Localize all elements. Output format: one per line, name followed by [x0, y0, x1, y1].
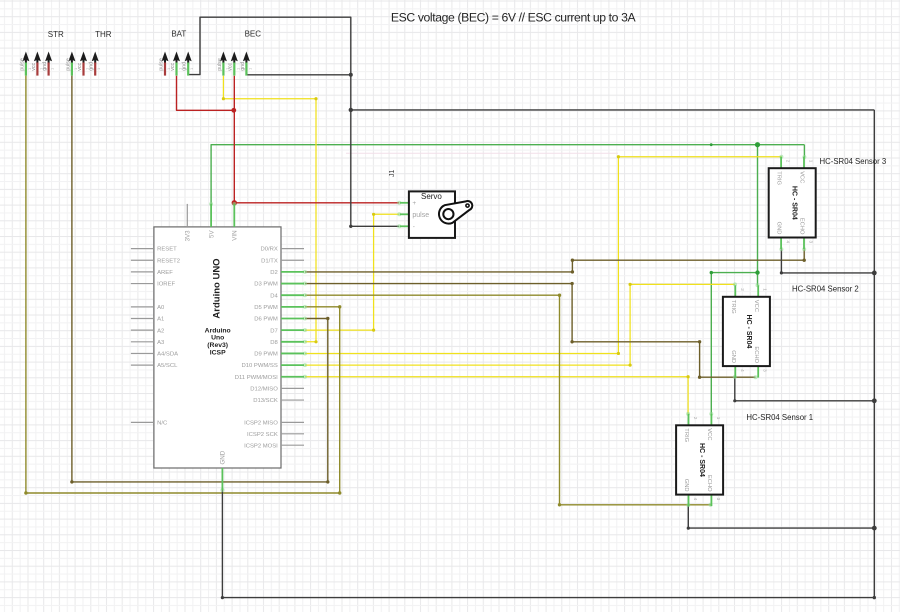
svg-text:D1/TX: D1/TX: [261, 258, 278, 264]
svg-text:D11 PWM/MOSI: D11 PWM/MOSI: [235, 375, 278, 381]
svg-text:IOREF: IOREF: [157, 282, 175, 288]
svg-text:D13/SCK: D13/SCK: [253, 398, 278, 404]
svg-text:BEC: BEC: [245, 30, 262, 39]
svg-text:GND: GND: [730, 350, 736, 363]
svg-text:-: -: [413, 224, 415, 231]
svg-text:3: 3: [716, 498, 721, 501]
svg-text:ECHO: ECHO: [706, 475, 712, 492]
svg-text:D0/RX: D0/RX: [260, 247, 277, 253]
svg-text:TRIG: TRIG: [776, 171, 782, 185]
svg-text:vcc: vcc: [31, 63, 37, 71]
svg-text:4: 4: [693, 498, 698, 501]
svg-text:HC-SR04 Sensor 3: HC-SR04 Sensor 3: [820, 157, 887, 166]
svg-text:D12/MISO: D12/MISO: [250, 387, 278, 393]
svg-text:2: 2: [740, 288, 745, 291]
svg-text:THR: THR: [95, 30, 112, 39]
svg-text:ESC voltage (BEC) = 6V // ESC: ESC voltage (BEC) = 6V // ESC current up…: [391, 11, 637, 25]
svg-text:D5 PWM: D5 PWM: [254, 305, 278, 311]
svg-text:+: +: [412, 200, 416, 207]
svg-text:D8: D8: [270, 340, 278, 346]
svg-text:ICSP2 SCK: ICSP2 SCK: [247, 432, 278, 438]
svg-text:A2: A2: [157, 328, 164, 334]
svg-text:pulse: pulse: [217, 58, 223, 71]
svg-text:VCC: VCC: [799, 171, 805, 183]
svg-text:Servo: Servo: [421, 192, 442, 201]
svg-text:pulse: pulse: [65, 58, 71, 71]
svg-text:D6 PWM: D6 PWM: [254, 317, 278, 323]
svg-text:BAT: BAT: [171, 30, 186, 39]
svg-text:D10 PWM/SS: D10 PWM/SS: [241, 363, 277, 369]
svg-text:RESET: RESET: [157, 247, 177, 253]
svg-text:Uno: Uno: [211, 335, 224, 342]
svg-text:VCC: VCC: [753, 300, 759, 312]
svg-text:gnd: gnd: [89, 62, 95, 71]
svg-text:HC - SR04: HC - SR04: [745, 315, 752, 349]
svg-text:pulse: pulse: [19, 58, 25, 71]
svg-text:4: 4: [786, 241, 791, 244]
svg-text:AREF: AREF: [157, 270, 173, 276]
svg-text:2: 2: [786, 160, 791, 163]
svg-text:HC - SR04: HC - SR04: [698, 443, 705, 477]
svg-text:ECHO: ECHO: [799, 218, 805, 235]
svg-text:N/C: N/C: [157, 421, 168, 427]
svg-text:5V: 5V: [208, 230, 215, 238]
svg-text:vcc: vcc: [77, 63, 83, 71]
svg-text:J1: J1: [389, 170, 396, 178]
svg-text:gnd: gnd: [240, 62, 246, 71]
svg-text:3: 3: [809, 241, 814, 244]
svg-text:D3 PWM: D3 PWM: [254, 282, 278, 288]
svg-text:pulse: pulse: [158, 58, 164, 71]
svg-text:GND: GND: [776, 222, 782, 235]
svg-text:vcc: vcc: [228, 63, 234, 71]
svg-text:gnd: gnd: [42, 62, 48, 71]
svg-text:TRIG: TRIG: [730, 300, 736, 314]
svg-text:3V3: 3V3: [185, 230, 192, 242]
svg-text:Arduino: Arduino: [205, 327, 231, 334]
svg-text:(Rev3): (Rev3): [207, 342, 228, 349]
svg-text:A4/SDA: A4/SDA: [157, 352, 178, 358]
svg-text:1: 1: [763, 288, 768, 291]
svg-text:pulse: pulse: [412, 212, 429, 219]
svg-text:HC-SR04 Sensor 2: HC-SR04 Sensor 2: [792, 285, 859, 294]
svg-text:D9 PWM: D9 PWM: [254, 352, 278, 358]
svg-text:1: 1: [809, 160, 814, 163]
svg-text:A0: A0: [157, 305, 165, 311]
svg-text:vcc: vcc: [170, 63, 176, 71]
svg-text:VCC: VCC: [706, 428, 712, 440]
svg-text:ECHO: ECHO: [753, 346, 759, 363]
svg-text:ICSP: ICSP: [210, 350, 226, 357]
svg-text:D7: D7: [270, 328, 278, 334]
svg-text:A1: A1: [157, 317, 164, 323]
svg-text:2: 2: [693, 417, 698, 420]
svg-text:VIN: VIN: [232, 230, 239, 240]
svg-text:GND: GND: [683, 479, 689, 492]
svg-text:GND: GND: [220, 450, 227, 464]
svg-text:HC - SR04: HC - SR04: [791, 186, 798, 220]
svg-text:RESET2: RESET2: [157, 258, 180, 264]
svg-text:A3: A3: [157, 340, 165, 346]
svg-text:ICSP2 MISO: ICSP2 MISO: [244, 421, 278, 427]
svg-text:HC-SR04 Sensor 1: HC-SR04 Sensor 1: [746, 413, 813, 422]
svg-text:TRIG: TRIG: [683, 428, 689, 442]
svg-text:D2: D2: [270, 270, 278, 276]
svg-text:3: 3: [763, 369, 768, 372]
svg-text:Arduino UNO: Arduino UNO: [212, 258, 223, 318]
svg-text:ICSP2 MOSI: ICSP2 MOSI: [244, 443, 278, 449]
svg-text:gnd: gnd: [182, 62, 188, 71]
svg-text:D4: D4: [270, 293, 278, 299]
svg-text:4: 4: [740, 369, 745, 372]
svg-text:STR: STR: [48, 30, 64, 39]
svg-text:A5/SCL: A5/SCL: [157, 363, 178, 369]
svg-text:1: 1: [716, 417, 721, 420]
